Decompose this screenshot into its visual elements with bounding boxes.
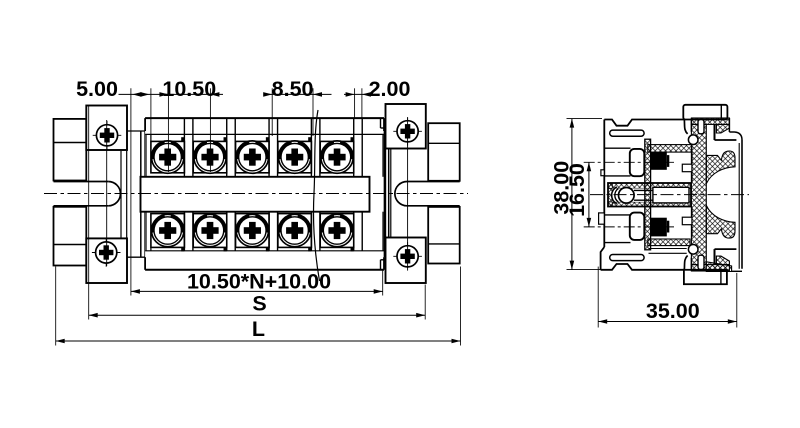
bottom screw head (side view) bbox=[630, 213, 645, 240]
svg-text:2.00: 2.00 bbox=[369, 77, 411, 101]
pad screw bottom-right bbox=[393, 242, 422, 271]
dimension 16.50 bbox=[565, 162, 591, 227]
terminal screw top #1 bbox=[151, 141, 185, 173]
top screw head (side view) bbox=[630, 149, 645, 176]
terminal recess square bottom #1 bbox=[151, 214, 185, 248]
top screw axis centerline bbox=[584, 161, 674, 163]
dimension 8.50 arrows and text bbox=[263, 77, 322, 101]
dimension 10.50 arrows and text bbox=[159, 77, 219, 101]
bottom clamp body (black) bbox=[651, 218, 670, 237]
partition wall #2 bbox=[227, 118, 236, 251]
bottom ventilation slot bbox=[610, 255, 644, 261]
horizontal centerline of front view bbox=[44, 193, 468, 195]
dimension 10.50*N+10.00 bbox=[131, 269, 383, 293]
hatched wedge under top band bbox=[716, 124, 729, 133]
terminal screw bottom #4 bbox=[278, 214, 312, 248]
bottom cavity wall (hatched) bbox=[648, 239, 690, 246]
hatched main column bbox=[691, 124, 706, 264]
side view horizontal centerline bbox=[590, 194, 749, 196]
top cavity wall (hatched) bbox=[648, 145, 692, 153]
bottom latch channel walls (white) bbox=[684, 256, 687, 271]
right end bracket wing top bbox=[428, 123, 460, 181]
central through-channel bar bbox=[608, 183, 691, 207]
svg-text:35.00: 35.00 bbox=[646, 299, 700, 323]
top latch channel walls (white) bbox=[684, 119, 687, 134]
white screwdriver slot bottom in column bbox=[698, 255, 704, 269]
terminal recess square top #4 bbox=[278, 141, 312, 172]
right mounting pad bottom bbox=[386, 238, 426, 284]
left mounting pad top bbox=[86, 106, 127, 151]
bottom cavity bbox=[649, 207, 692, 254]
side view body outline bbox=[599, 120, 692, 270]
right mounting pad top bbox=[386, 104, 426, 149]
terminal recess square bottom #3 bbox=[236, 214, 270, 248]
dimension 35.00 bbox=[598, 299, 737, 324]
latch ball bottom bbox=[688, 245, 698, 255]
top dimension line bbox=[119, 93, 373, 95]
extension lines for top dimensions bbox=[131, 88, 362, 295]
terminal screw top #4 bbox=[278, 141, 312, 173]
white screwdriver slot top in column bbox=[698, 120, 704, 134]
terminal recess square top #3 bbox=[236, 141, 270, 172]
pad screw bottom-left bbox=[92, 238, 121, 267]
clamp yoke plate (vertical, hatched) bbox=[645, 139, 651, 250]
pad screw top-right bbox=[393, 117, 422, 146]
bottom screw axis centerline bbox=[584, 226, 674, 228]
hatched wedge over bottom band bbox=[716, 256, 729, 265]
terminal recess square bottom #4 bbox=[278, 214, 312, 248]
pad screw top-left bbox=[93, 121, 122, 150]
bottom foot tab bbox=[684, 270, 727, 284]
hatched top rail hook bbox=[706, 151, 735, 184]
terminal screw bottom #2 bbox=[193, 214, 227, 248]
left bracket U-slot bbox=[54, 151, 127, 239]
wire slot lines bbox=[634, 190, 653, 200]
right bracket clamp finger bbox=[384, 131, 388, 257]
terminal screw bottom #3 bbox=[236, 214, 270, 248]
terminal screw top #3 bbox=[236, 141, 270, 173]
break line (wavy) bbox=[314, 110, 320, 281]
svg-text:8.50: 8.50 bbox=[272, 77, 314, 101]
latch ball top bbox=[688, 135, 698, 145]
body corner step notches right bbox=[381, 118, 385, 270]
left end bracket wing (DIN clamp, bottom) bbox=[54, 207, 87, 266]
clamp spring arcs bbox=[612, 187, 619, 204]
svg-text:L: L bbox=[252, 317, 265, 341]
wire hole circle bbox=[619, 188, 635, 204]
terminal recess square top #2 bbox=[193, 141, 227, 172]
dimension 5.00 arrows and text bbox=[76, 77, 149, 101]
terminal recess square top #1 bbox=[151, 141, 185, 172]
top clamp body (black) bbox=[651, 152, 670, 170]
extension lines 38.00 bbox=[567, 119, 603, 270]
terminal screw top #2 bbox=[193, 141, 227, 173]
terminal screw top #5 bbox=[320, 141, 354, 173]
terminal strip body outline bbox=[145, 118, 384, 270]
partition wall #4 bbox=[311, 118, 320, 251]
dimension 2.00 arrows and text bbox=[346, 77, 411, 101]
left end bracket wing (DIN clamp, top) bbox=[54, 119, 87, 181]
top mounting tab bbox=[683, 105, 727, 120]
pad screws axis line right bbox=[407, 118, 409, 268]
extension lines 35.00 bbox=[598, 267, 737, 328]
left mounting pad bottom bbox=[86, 238, 127, 283]
partition wall #5 bbox=[354, 118, 363, 251]
svg-text:5.00: 5.00 bbox=[76, 77, 118, 101]
left bracket clamp finger bbox=[127, 131, 145, 257]
terminal screw bottom #1 bbox=[151, 214, 185, 248]
terminal recess square bottom #5 bbox=[320, 214, 354, 248]
svg-text:S: S bbox=[252, 292, 266, 316]
top cavity bbox=[682, 152, 692, 183]
hatched bottom wedge bbox=[706, 262, 731, 272]
extension lines for bottom dimensions bbox=[56, 106, 461, 346]
hatched top band under tab bbox=[691, 118, 729, 124]
terminal recess square top #5 bbox=[320, 141, 354, 172]
dimension 38.00 bbox=[549, 119, 574, 270]
top ventilation slot bbox=[610, 130, 644, 136]
terminal screw bottom #5 bbox=[320, 214, 354, 248]
inner margin ladder lines bbox=[146, 134, 383, 250]
hatched bottom rail hook bbox=[706, 205, 735, 238]
svg-text:10.50*N+10.00: 10.50*N+10.00 bbox=[187, 269, 331, 293]
terminal recess square bottom #2 bbox=[193, 214, 227, 248]
DIN rail clamp outline right bbox=[715, 118, 743, 271]
dimension S bbox=[89, 292, 426, 318]
dimension L bbox=[56, 317, 461, 343]
right bracket U-slot bbox=[386, 149, 460, 238]
partition wall #3 bbox=[269, 118, 278, 251]
partition wall #1 bbox=[184, 118, 193, 251]
svg-text:10.50: 10.50 bbox=[162, 77, 216, 101]
center barrier bar bbox=[141, 177, 370, 212]
right end bracket wing bottom bbox=[428, 207, 460, 264]
wire funnel walls bbox=[604, 148, 630, 242]
pad screws axis line left bbox=[106, 120, 108, 266]
hatched bottom band above foot bbox=[691, 265, 729, 271]
svg-text:16.50: 16.50 bbox=[565, 163, 589, 217]
